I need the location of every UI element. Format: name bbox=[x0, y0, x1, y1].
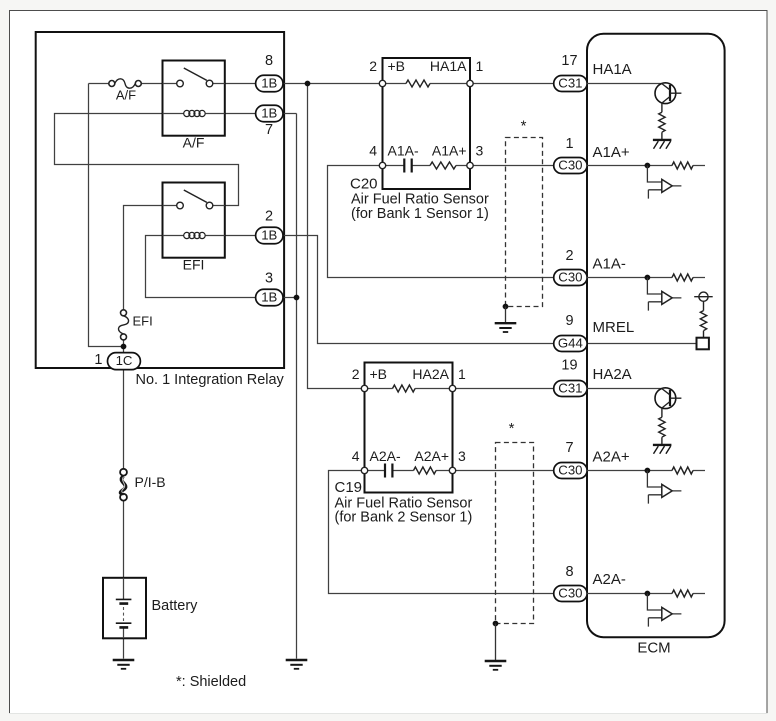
svg-text:7: 7 bbox=[565, 440, 573, 456]
svg-text:1B: 1B bbox=[261, 227, 277, 242]
junction dot: 1B-3 ground tap bbox=[294, 295, 300, 301]
svg-text:9: 9 bbox=[565, 313, 573, 329]
svg-text:P/I-B: P/I-B bbox=[135, 474, 166, 490]
svg-text:+B: +B bbox=[370, 366, 388, 382]
svg-text:A/F: A/F bbox=[183, 135, 205, 151]
svg-text:C31: C31 bbox=[558, 380, 582, 395]
fuse EFI (vertical) bbox=[118, 310, 128, 340]
svg-text:G44: G44 bbox=[558, 335, 583, 350]
wire: C19 pin1 to C31-19 pill bbox=[456, 388, 554, 390]
svg-text:1: 1 bbox=[458, 366, 466, 382]
wire: C20 pin1 HA1A to C31 pill bbox=[473, 83, 554, 85]
shield 2 ground wire bbox=[495, 624, 497, 661]
terminal C20 pin2 bbox=[379, 80, 385, 86]
svg-text:HA1A: HA1A bbox=[593, 61, 632, 78]
wire: A/F coil west leg bbox=[55, 114, 239, 206]
svg-text:1: 1 bbox=[565, 136, 573, 152]
sensor C20 box bbox=[383, 58, 471, 189]
svg-text:4: 4 bbox=[352, 448, 360, 464]
svg-text:MREL: MREL bbox=[593, 319, 635, 336]
wire: A/F relay switch out to 1B-8 pill bbox=[225, 83, 256, 85]
svg-text:1C: 1C bbox=[116, 353, 133, 368]
svg-text:*: * bbox=[521, 118, 527, 135]
terminal C19 pin4 bbox=[361, 467, 367, 473]
svg-text:C30: C30 bbox=[558, 269, 582, 284]
C20 internal wires top row bbox=[386, 83, 467, 85]
wire: C19 pin4 to A2A- vertical to C30-8 pill bbox=[329, 471, 554, 594]
ECM pill C30-7 bbox=[554, 463, 587, 479]
terminal C19 pin2 bbox=[361, 385, 367, 391]
transistor Q2 HA2A driver bbox=[587, 388, 681, 454]
wire: +B vertical from HA1A junction to C19 pin2 bbox=[308, 84, 362, 389]
svg-text:Battery: Battery bbox=[152, 598, 199, 614]
connector pill 1B-7 bbox=[256, 105, 283, 122]
MREL driver square bbox=[697, 338, 709, 350]
terminal C20 pin4 bbox=[379, 162, 385, 168]
wire: 1B-2 pill to MREL vertical and G44 bbox=[283, 236, 554, 344]
resistor C19 heater bbox=[393, 385, 416, 392]
shield 2 ground bbox=[485, 661, 507, 670]
ECM pill C30-2 bbox=[554, 270, 587, 286]
shield 2 ground tap dot bbox=[493, 621, 499, 627]
capacitor C19 cell bbox=[385, 464, 392, 478]
svg-text:HA2A: HA2A bbox=[412, 366, 449, 382]
ECM pill G44-9 bbox=[554, 336, 587, 352]
wire: EFI fuse bottom to 1C pill bbox=[123, 340, 125, 352]
svg-text:A1A-: A1A- bbox=[593, 256, 626, 273]
svg-text:EFI: EFI bbox=[183, 257, 205, 273]
svg-text:17: 17 bbox=[561, 53, 577, 69]
wire: C20 pin3 to C30-1 pill bbox=[473, 165, 554, 167]
wire: ground vertical x296.5 bbox=[296, 114, 298, 659]
svg-text:+B: +B bbox=[388, 58, 406, 74]
svg-text:C20: C20 bbox=[350, 176, 378, 193]
svg-text:1B: 1B bbox=[261, 75, 277, 90]
battery bbox=[103, 578, 146, 639]
svg-text:A1A+: A1A+ bbox=[432, 143, 467, 159]
svg-text:3: 3 bbox=[458, 448, 466, 464]
svg-text:HA2A: HA2A bbox=[593, 366, 632, 383]
svg-text:A/F: A/F bbox=[116, 88, 136, 103]
connector pill 1B-8 bbox=[256, 75, 283, 92]
wire: EFI coil right to 1B-2 pill bbox=[225, 235, 256, 237]
svg-text:A2A-: A2A- bbox=[370, 448, 401, 464]
svg-text:2: 2 bbox=[352, 366, 360, 382]
buffer A2A+ bbox=[587, 467, 705, 504]
connector pill 1C bbox=[108, 353, 141, 370]
wire: EFI switch left to fuse vertical bbox=[124, 206, 163, 310]
MREL driver circle bbox=[694, 292, 713, 338]
buffer A2A- bbox=[587, 590, 705, 627]
wire: 1C pill down to P/I-B link bbox=[123, 370, 125, 469]
terminal C20 pin3 bbox=[467, 162, 473, 168]
svg-text:No. 1 Integration Relay: No. 1 Integration Relay bbox=[136, 372, 285, 388]
wire: A/F relay coil to 1B-7 pill bbox=[225, 113, 256, 115]
wire: 1B-3 pill to ground vertical bbox=[283, 297, 297, 299]
ECM pill C31-17 bbox=[554, 76, 587, 92]
ECM box U1 bbox=[587, 34, 725, 637]
fusible link P/I-B bbox=[120, 469, 127, 501]
svg-text:C30: C30 bbox=[558, 462, 582, 477]
svg-text:(for Bank 1 Sensor 1): (for Bank 1 Sensor 1) bbox=[351, 206, 489, 222]
relay EFI bbox=[163, 183, 225, 258]
svg-text:Air Fuel Ratio Sensor: Air Fuel Ratio Sensor bbox=[351, 192, 489, 208]
junction dot: EFI fuse / 1C / A-F feed bbox=[121, 344, 127, 350]
resistor C19 cell bbox=[414, 467, 437, 474]
shield 1 ground bbox=[495, 323, 517, 332]
svg-text:A1A-: A1A- bbox=[388, 143, 419, 159]
wire: battery to ground bbox=[123, 638, 125, 658]
svg-text:2: 2 bbox=[369, 58, 377, 74]
svg-text:C30: C30 bbox=[558, 157, 582, 172]
svg-text:C19: C19 bbox=[335, 479, 363, 496]
wire: C19 pin3 to C30-7 pill bbox=[456, 470, 554, 472]
shield 1 ground wire bbox=[505, 307, 507, 323]
transistor Q1 HA1A driver bbox=[587, 83, 681, 149]
svg-text:*: * bbox=[509, 420, 515, 437]
svg-text:3: 3 bbox=[265, 270, 273, 286]
ECM pill C30-8 bbox=[554, 586, 587, 602]
svg-text:2: 2 bbox=[565, 248, 573, 264]
svg-text:(for Bank 2 Sensor 1): (for Bank 2 Sensor 1) bbox=[335, 510, 473, 526]
terminal C20 pin1 bbox=[467, 80, 473, 86]
svg-text:7: 7 bbox=[265, 122, 273, 138]
shield dashed box 1 bbox=[506, 138, 543, 307]
svg-text:C31: C31 bbox=[558, 75, 582, 90]
svg-text:HA1A: HA1A bbox=[430, 58, 467, 74]
svg-text:19: 19 bbox=[561, 358, 577, 374]
ECM pill C31-19 bbox=[554, 381, 587, 397]
svg-text:C30: C30 bbox=[558, 585, 582, 600]
svg-text:A2A+: A2A+ bbox=[593, 448, 630, 465]
terminal C19 pin1 bbox=[449, 385, 455, 391]
ground right (relay ground line) bbox=[286, 660, 308, 669]
svg-text:*: Shielded: *: Shielded bbox=[176, 674, 246, 690]
terminal C19 pin3 bbox=[449, 467, 455, 473]
wire: EFI coil left to 1B-3 pill bbox=[146, 236, 256, 298]
resistor C20 cell bbox=[430, 162, 456, 169]
svg-text:A2A-: A2A- bbox=[593, 571, 626, 588]
shield 1 ground tap dot bbox=[503, 304, 509, 310]
ECM pill C30-1 bbox=[554, 158, 587, 174]
C19 internal wires top row bbox=[368, 388, 450, 390]
buffer A1A- bbox=[587, 274, 705, 311]
wire: P/I-B to battery bbox=[123, 501, 125, 578]
C19 internal wires bottom row bbox=[368, 470, 450, 472]
wire: 1B-7 pill to ground vertical bbox=[283, 113, 297, 115]
capacitor C20 cell bbox=[404, 159, 411, 173]
resistor C20 heater bbox=[406, 80, 430, 87]
C20 internal wires bottom row bbox=[386, 165, 467, 167]
connector pill 1B-3 bbox=[256, 289, 283, 306]
wire: MREL inside ECM to driver square bbox=[587, 343, 697, 345]
MREL driver resistor bbox=[700, 311, 706, 331]
relay A/F bbox=[163, 61, 225, 136]
wire: A/F fuse feed horizontal y83.5 bbox=[89, 83, 163, 85]
svg-text:2: 2 bbox=[265, 209, 273, 225]
sensor C19 box bbox=[365, 363, 453, 493]
svg-text:1B: 1B bbox=[261, 289, 277, 304]
wire: 1B-8 pill to C20 pin2 (+B) bbox=[283, 83, 379, 85]
svg-text:1: 1 bbox=[476, 58, 484, 74]
svg-text:A1A+: A1A+ bbox=[593, 144, 630, 161]
No.1 Integration Relay box bbox=[36, 32, 284, 368]
svg-text:A2A+: A2A+ bbox=[414, 448, 449, 464]
svg-text:EFI: EFI bbox=[133, 314, 153, 329]
svg-text:ECM: ECM bbox=[637, 640, 670, 657]
shield dashed box 2 bbox=[496, 443, 534, 624]
svg-text:3: 3 bbox=[476, 143, 484, 159]
connector pill 1B-2 bbox=[256, 227, 283, 244]
buffer A1A+ bbox=[587, 162, 705, 199]
svg-text:1B: 1B bbox=[261, 105, 277, 120]
fuse A/F (horizontal) bbox=[109, 79, 142, 88]
wire: C20 pin4 to A1A- vertical to C30 pill bbox=[328, 166, 554, 278]
svg-text:8: 8 bbox=[565, 564, 573, 580]
wire: A/F feed vertical x88.5 bbox=[89, 84, 124, 347]
ground under battery bbox=[113, 660, 135, 669]
svg-text:4: 4 bbox=[369, 143, 377, 159]
junction dot: HA1A/+B tap bbox=[305, 81, 311, 87]
svg-text:1: 1 bbox=[94, 352, 102, 368]
svg-text:8: 8 bbox=[265, 53, 273, 69]
